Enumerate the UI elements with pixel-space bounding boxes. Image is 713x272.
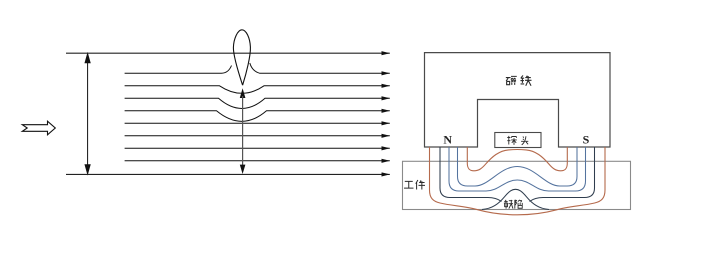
top boundary line with arrow — [66, 52, 390, 54]
field line 7 — [125, 147, 390, 149]
field line 6 — [125, 135, 390, 137]
field line 5 — [125, 122, 390, 124]
field line 2 with dip — [125, 86, 390, 94]
svg-text:S: S — [583, 133, 590, 147]
dark flux line D1 left — [440, 147, 502, 201]
label quexian (defect) — [504, 200, 522, 209]
magnet yoke outline — [425, 53, 611, 147]
field line 3 with dip — [125, 98, 390, 108]
label citie (magnet) — [506, 75, 532, 85]
field line 4 with dip — [125, 111, 390, 122]
svg-text:N: N — [443, 133, 452, 147]
workpiece rectangle — [403, 161, 631, 209]
dark flux line D1 right — [530, 147, 595, 201]
blue flux line B1 (upper hump) — [458, 147, 578, 186]
defect hill outline — [482, 189, 549, 209]
label tantou (probe) — [507, 136, 528, 145]
field line 1 left segment with hook into bell — [125, 66, 232, 74]
bottom boundary line with arrow — [66, 173, 390, 175]
field line 8 — [125, 160, 390, 162]
field line 1 right segment with hook and arrow — [250, 63, 390, 73]
label gongjian (workpiece) — [404, 180, 425, 189]
probe box — [495, 133, 541, 148]
leakage signal bell curve (leaf shape) — [233, 30, 250, 85]
inner red flux line R1 (arc under probe) — [467, 147, 567, 171]
central arrow down head — [240, 165, 246, 174]
blue flux line B2 (middle hump) — [449, 147, 586, 191]
outer red flux loop R2 — [430, 147, 606, 215]
central vertical shaft — [242, 96, 244, 166]
hollow drive arrow — [22, 121, 55, 135]
central defect arrow up head — [240, 88, 246, 98]
vertical double-headed arrow — [85, 54, 90, 174]
